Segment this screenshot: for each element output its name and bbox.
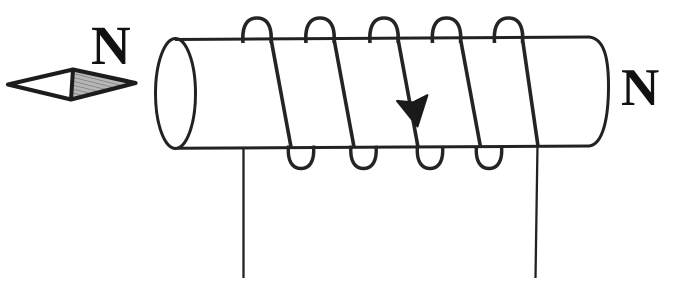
coil turn 1 bottom loop	[288, 146, 313, 169]
compass needle shaded N-half	[71, 70, 136, 100]
coil turn 3 bottom loop	[417, 146, 442, 169]
cylinder top edge	[175, 37, 590, 40]
current direction arrowhead	[397, 95, 427, 126]
coil turn 2 top loop	[306, 18, 334, 43]
coil turn 2 bottom loop	[351, 146, 376, 169]
needle pivot divider	[71, 70, 73, 100]
coil turn 4 front strand	[461, 39, 481, 147]
coil turn 1 front strand	[271, 39, 291, 147]
coil turn 3 front strand with current arrow	[398, 39, 418, 147]
cylinder right end cap	[589, 37, 609, 146]
coil turn 4 top loop	[432, 18, 460, 43]
coil turn 1 top loop	[243, 18, 271, 43]
svg-text:N: N	[621, 59, 659, 117]
coil turn 5 front strand continuing into right lead	[523, 39, 539, 146]
coil turn 2 front strand	[334, 39, 354, 147]
coil turn 5 top loop	[494, 18, 522, 43]
coil turn 4 bottom loop	[476, 146, 501, 169]
coil turn 3 top loop	[370, 18, 398, 43]
cylinder bottom edge	[177, 146, 590, 148]
compass needle outline	[8, 70, 136, 100]
solenoid left end cap ellipse	[156, 39, 196, 149]
left lead wire	[242, 147, 244, 278]
svg-text:N: N	[91, 15, 131, 76]
right lead wire	[536, 145, 538, 278]
